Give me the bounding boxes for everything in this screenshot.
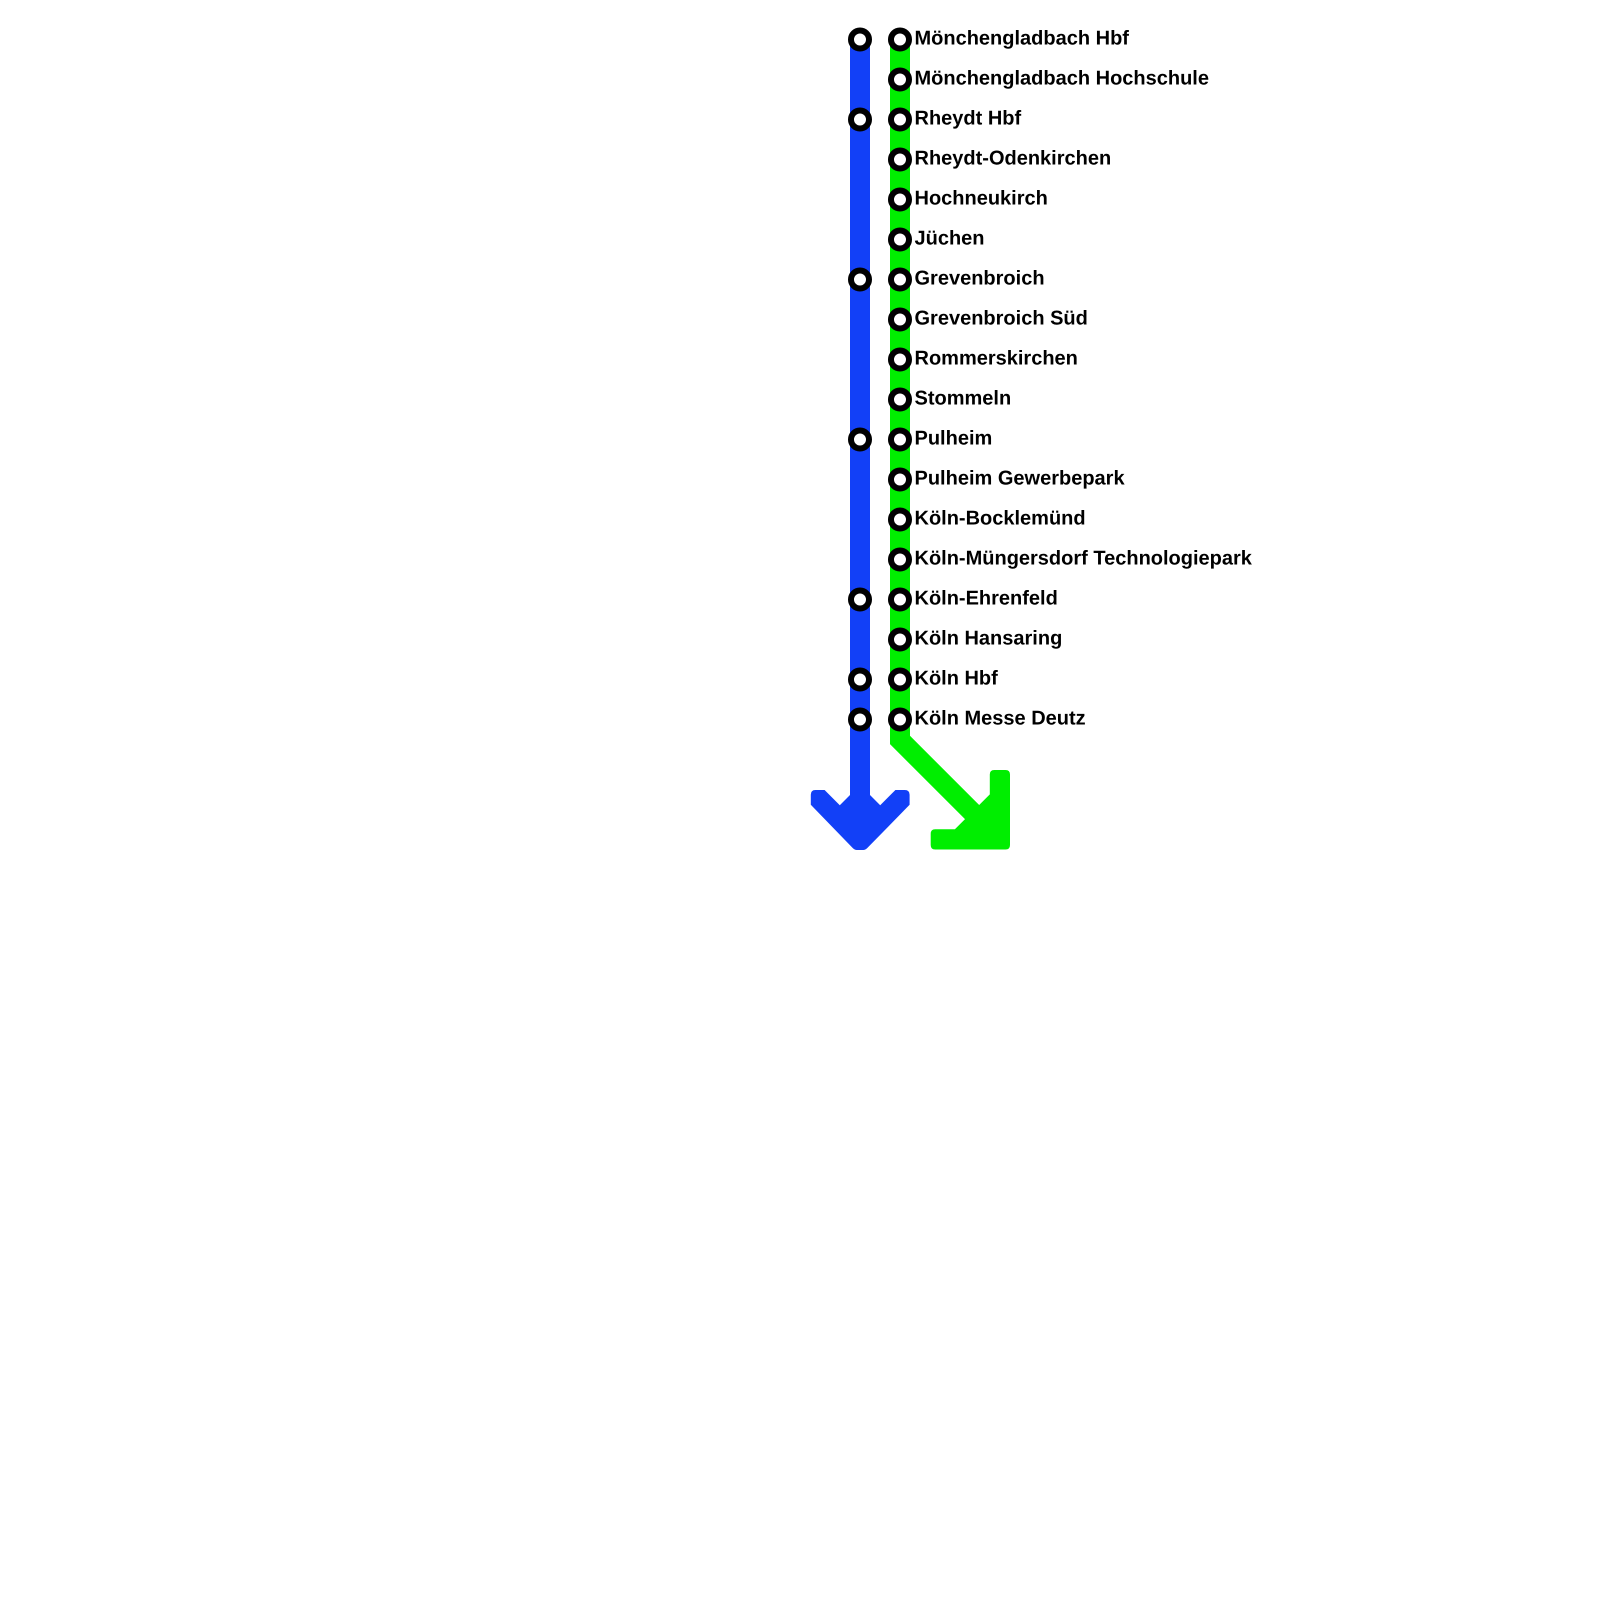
station Grevenbroich Süd (green marker) (891, 311, 909, 329)
station Mönchengladbach Hochschule (green marker) (891, 71, 909, 89)
svg-text:Rheydt-Odenkirchen: Rheydt-Odenkirchen (915, 148, 1112, 170)
station Köln-Bocklemünd (green marker) (891, 511, 909, 529)
station Pulheim (blue marker) (851, 431, 869, 449)
station Grevenbroich (green marker) (891, 271, 909, 289)
station Pulheim (green marker) (891, 431, 909, 449)
station Rheydt Hbf (green marker) (891, 111, 909, 129)
svg-text:Pulheim Gewerbepark: Pulheim Gewerbepark (915, 468, 1126, 490)
station Rheydt-Odenkirchen (green marker) (891, 151, 909, 169)
svg-text:Hochneukirch: Hochneukirch (915, 188, 1048, 210)
station Köln Hansaring (green marker) (891, 631, 909, 649)
station Köln Hbf (green marker) (891, 671, 909, 689)
station Jüchen (green marker) (891, 231, 909, 249)
station Köln Messe Deutz (green marker) (891, 711, 909, 729)
station Köln Messe Deutz (blue marker) (851, 711, 869, 729)
blue line (RE/RB trunk) vertical segment (850, 40, 870, 813)
station Hochneukirch (green marker) (891, 191, 909, 209)
station Köln-Müngersdorf Technologiepark (green marker) (891, 551, 909, 569)
svg-text:Pulheim: Pulheim (915, 428, 993, 450)
station Mönchengladbach Hbf (blue marker) (851, 31, 869, 49)
svg-text:Köln-Bocklemünd: Köln-Bocklemünd (915, 508, 1086, 530)
blue line terminus arrow head (811, 790, 910, 850)
station Köln-Ehrenfeld (green marker) (891, 591, 909, 609)
svg-text:Köln Hansaring: Köln Hansaring (915, 628, 1063, 650)
svg-text:Mönchengladbach Hbf: Mönchengladbach Hbf (915, 28, 1130, 50)
svg-text:Rommerskirchen: Rommerskirchen (915, 348, 1078, 370)
station Rheydt Hbf (blue marker) (851, 111, 869, 129)
station Grevenbroich (blue marker) (851, 271, 869, 289)
svg-text:Grevenbroich Süd: Grevenbroich Süd (915, 308, 1088, 330)
station Mönchengladbach Hbf (green marker) (891, 31, 909, 49)
svg-text:Stommeln: Stommeln (915, 388, 1012, 410)
svg-text:Mönchengladbach Hochschule: Mönchengladbach Hochschule (915, 68, 1209, 90)
station Köln Hbf (blue marker) (851, 671, 869, 689)
station Stommeln (green marker) (891, 391, 909, 409)
svg-text:Köln Hbf: Köln Hbf (915, 668, 999, 690)
station Rommerskirchen (green marker) (891, 351, 909, 369)
green line terminus arrow head (L-shaped corner with wings) (931, 770, 1010, 850)
station Pulheim Gewerbepark (green marker) (891, 471, 909, 489)
svg-text:Grevenbroich: Grevenbroich (915, 268, 1045, 290)
green line vertical + diagonal segment (900, 40, 990, 830)
svg-text:Köln-Ehrenfeld: Köln-Ehrenfeld (915, 588, 1058, 610)
svg-text:Jüchen: Jüchen (915, 228, 985, 250)
station Köln-Ehrenfeld (blue marker) (851, 591, 869, 609)
svg-text:Rheydt Hbf: Rheydt Hbf (915, 108, 1022, 130)
svg-text:Köln-Müngersdorf Technologiepa: Köln-Müngersdorf Technologiepark (915, 548, 1253, 570)
svg-text:Köln Messe Deutz: Köln Messe Deutz (915, 708, 1086, 730)
